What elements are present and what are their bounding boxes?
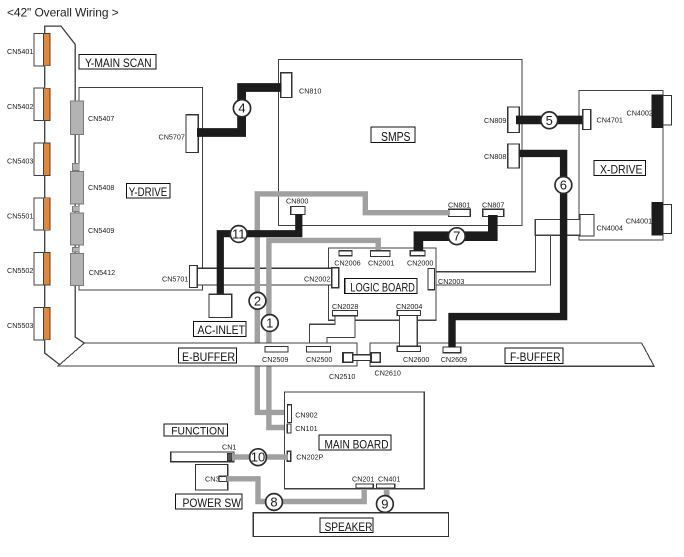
connector CN4002 xyxy=(652,95,672,128)
svg-text:1: 1 xyxy=(266,316,273,331)
connector CN401 xyxy=(377,484,395,488)
label box SMPS xyxy=(371,127,415,144)
svg-text:CN5501: CN5501 xyxy=(7,211,33,220)
node circle 1 xyxy=(261,315,278,332)
svg-text:CN807: CN807 xyxy=(482,201,504,210)
E-BUFFER panel xyxy=(58,343,357,366)
wire left column harness xyxy=(45,26,85,366)
svg-text:CN801: CN801 xyxy=(448,201,470,210)
svg-text:Y-MAIN SCAN: Y-MAIN SCAN xyxy=(85,56,152,70)
svg-text:CN2510: CN2510 xyxy=(329,372,355,381)
spacer cap xyxy=(73,206,80,211)
wire 7 black CN807 to CN2000 xyxy=(418,215,492,251)
svg-text:AC-INLET: AC-INLET xyxy=(198,323,246,337)
label box E-BUFFER xyxy=(179,348,237,364)
connector CN2000 xyxy=(410,251,425,256)
connector CN5401 xyxy=(34,33,50,65)
svg-text:CN4004: CN4004 xyxy=(597,224,623,233)
connector CN2006 xyxy=(339,251,352,256)
connector CN202P xyxy=(287,451,290,461)
svg-text:CN800: CN800 xyxy=(286,197,308,206)
svg-text:CN2004: CN2004 xyxy=(396,302,422,311)
connector CN3 xyxy=(219,476,227,481)
label box POWER SW xyxy=(176,494,243,510)
connector CN5409 xyxy=(70,213,83,245)
AC-INLET box xyxy=(209,294,232,317)
svg-text:<42" Overall Wiring >: <42" Overall Wiring > xyxy=(7,6,119,20)
svg-text:CN2600: CN2600 xyxy=(403,355,429,364)
svg-text:CN2610: CN2610 xyxy=(375,369,401,378)
connector CN2004/CN2600 assembly xyxy=(400,316,418,347)
svg-text:CN1: CN1 xyxy=(222,443,236,452)
svg-text:CN5502: CN5502 xyxy=(7,266,33,275)
svg-text:6: 6 xyxy=(560,178,567,193)
spacer cap xyxy=(73,164,80,171)
connector CN2002 xyxy=(332,268,339,288)
connector CN902 xyxy=(288,405,292,423)
svg-text:X-DRIVE: X-DRIVE xyxy=(600,162,643,176)
svg-text:CN809: CN809 xyxy=(484,116,506,125)
ribbon bar CN5701 to CN2002 xyxy=(197,268,332,285)
SMPS board xyxy=(279,60,523,226)
label box Y-DRIVE xyxy=(127,183,171,199)
svg-text:CN3: CN3 xyxy=(205,475,219,484)
connector CN2001 xyxy=(370,251,390,257)
connector CN810 xyxy=(281,73,292,98)
svg-text:CN5503: CN5503 xyxy=(7,321,33,330)
node circle 11 xyxy=(230,226,247,243)
svg-text:CN5401: CN5401 xyxy=(7,47,33,56)
connector CN5412 xyxy=(70,254,83,286)
connector CN2500 xyxy=(307,347,331,353)
node circle 7 xyxy=(448,228,465,245)
connector CN5403 xyxy=(34,143,50,175)
connector CN800 xyxy=(291,206,305,214)
svg-text:CN5402: CN5402 xyxy=(7,102,33,111)
svg-text:CN4701: CN4701 xyxy=(597,116,623,125)
svg-text:F-BUFFER: F-BUFFER xyxy=(510,352,561,364)
connector CN807 xyxy=(483,209,504,216)
connector CN5408 xyxy=(70,172,83,205)
X-DRIVE board xyxy=(579,90,663,240)
svg-text:MAIN BOARD: MAIN BOARD xyxy=(325,439,389,451)
wire 2 gray CN801 to CN902 xyxy=(257,194,450,413)
node circle 9 xyxy=(377,496,394,513)
svg-text:SPEAKER: SPEAKER xyxy=(325,522,373,534)
connector CN101 xyxy=(287,424,291,433)
connector CN1 xyxy=(228,453,233,460)
F-BUFFER panel xyxy=(370,343,654,366)
LOGIC BOARD xyxy=(329,248,436,320)
svg-text:8: 8 xyxy=(270,495,277,510)
label box LOGIC BOARD xyxy=(345,278,417,294)
connector CN2028 assembly xyxy=(310,316,355,343)
SPEAKER box xyxy=(253,513,448,537)
svg-text:LOGIC BOARD: LOGIC BOARD xyxy=(350,281,415,295)
connector CN4701 xyxy=(583,110,591,130)
connector CN5501 xyxy=(34,198,50,230)
connector CN2609 xyxy=(443,347,461,353)
svg-text:10: 10 xyxy=(251,450,265,465)
connector CN4001 xyxy=(652,202,672,236)
svg-text:CN808: CN808 xyxy=(484,152,506,161)
node circle 4 xyxy=(233,100,250,117)
svg-text:CN5407: CN5407 xyxy=(88,114,114,123)
MAIN BOARD xyxy=(285,392,425,489)
connector CN801 xyxy=(449,209,471,216)
node circle 8 xyxy=(266,494,283,511)
wire 11 black CN800 to AC-INLET xyxy=(220,214,298,294)
connector CN2509 xyxy=(265,347,288,353)
label box SPEAKER xyxy=(320,518,373,534)
svg-text:CN5408: CN5408 xyxy=(88,183,114,192)
connector CN201 xyxy=(356,484,373,488)
wire 8 gray CN3 to CN201 xyxy=(227,479,365,502)
svg-text:CN2609: CN2609 xyxy=(441,355,467,364)
connector CN809 xyxy=(508,107,520,132)
connector CN2003 xyxy=(428,269,435,290)
svg-text:E-BUFFER: E-BUFFER xyxy=(182,352,235,364)
wire 4 black CN5707 to CN810 xyxy=(197,88,282,133)
svg-text:7: 7 xyxy=(453,229,460,244)
svg-text:CN2003: CN2003 xyxy=(438,277,464,286)
svg-text:11: 11 xyxy=(232,227,246,242)
svg-text:POWER SW: POWER SW xyxy=(183,498,242,510)
ribbon bar CN4004 to X-drive xyxy=(535,220,580,236)
svg-text:CN2002: CN2002 xyxy=(304,275,330,284)
svg-text:CN2000: CN2000 xyxy=(407,259,433,268)
label box AC-INLET xyxy=(194,322,246,338)
svg-text:CN5409: CN5409 xyxy=(88,226,114,235)
connector CN808 xyxy=(508,144,520,168)
node circle 5 xyxy=(541,112,558,129)
label box MAIN BOARD xyxy=(319,435,391,451)
node circle 6 xyxy=(555,177,572,194)
connector CN5701 xyxy=(190,266,198,288)
label box Y-MAIN SCAN xyxy=(79,55,156,71)
svg-text:CN5701: CN5701 xyxy=(162,275,188,284)
wire 1 gray CN2001 to CN101 xyxy=(269,240,378,427)
svg-text:9: 9 xyxy=(381,497,388,512)
wire 5 black CN809 to CN4701 xyxy=(516,116,583,125)
wire 10 gray CN1 to CN202P xyxy=(232,454,288,459)
svg-text:CN201: CN201 xyxy=(352,475,374,484)
connector CN5502 xyxy=(34,253,50,285)
ribbon pipe CN4004 to CN2003 xyxy=(436,235,551,285)
connector CN2510 and CN2610 link xyxy=(353,355,371,361)
svg-text:CN2028: CN2028 xyxy=(332,302,358,311)
svg-text:CN202P: CN202P xyxy=(296,453,323,462)
svg-text:CN2500: CN2500 xyxy=(306,355,332,364)
svg-text:CN2001: CN2001 xyxy=(368,259,394,268)
connector CN5407 xyxy=(70,101,83,134)
svg-text:CN902: CN902 xyxy=(295,411,317,420)
svg-text:CN810: CN810 xyxy=(299,87,321,96)
FUNCTION board xyxy=(171,452,234,462)
svg-text:CN2006: CN2006 xyxy=(334,259,360,268)
svg-text:5: 5 xyxy=(546,113,553,128)
svg-text:CN101: CN101 xyxy=(295,424,317,433)
wire 9 gray CN401 to SPEAKER xyxy=(384,489,390,514)
connector CN5503 xyxy=(34,307,50,339)
node circle 2 xyxy=(249,292,266,309)
svg-text:Y-DRIVE: Y-DRIVE xyxy=(129,187,168,199)
svg-text:CN4001: CN4001 xyxy=(626,217,652,226)
node circle 10 xyxy=(250,449,267,466)
svg-text:CN2509: CN2509 xyxy=(262,355,288,364)
svg-text:2: 2 xyxy=(254,293,261,308)
wire 6 black CN808 to CN2609 xyxy=(452,153,564,347)
connector CN5402 xyxy=(34,88,50,120)
label box X-DRIVE xyxy=(594,160,646,176)
svg-text:CN401: CN401 xyxy=(378,475,400,484)
spacer cap xyxy=(73,248,80,253)
connector CN4004 xyxy=(580,215,594,236)
label box FUNCTION xyxy=(164,424,227,438)
label box F-BUFFER xyxy=(505,348,563,364)
svg-text:CN5707: CN5707 xyxy=(159,132,185,141)
svg-text:CN4002: CN4002 xyxy=(627,109,653,118)
svg-text:CN5412: CN5412 xyxy=(89,268,115,277)
Y-DRIVE board xyxy=(79,87,202,290)
svg-text:SMPS: SMPS xyxy=(381,130,411,144)
POWER SW board xyxy=(195,465,227,491)
svg-text:FUNCTION: FUNCTION xyxy=(171,426,224,438)
svg-text:4: 4 xyxy=(238,101,245,116)
svg-text:CN5403: CN5403 xyxy=(7,157,33,166)
connector CN5707 xyxy=(186,115,198,153)
